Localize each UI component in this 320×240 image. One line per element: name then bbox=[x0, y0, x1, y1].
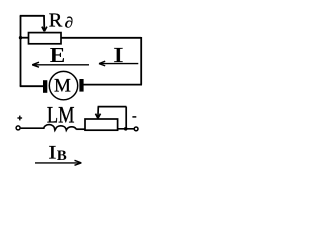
node B junction dot right bbox=[124, 127, 128, 131]
svg-text:I: I bbox=[48, 141, 56, 163]
svg-text:B: B bbox=[57, 148, 67, 164]
resistor field rheostat body bbox=[85, 119, 118, 130]
terminal circle + bbox=[16, 126, 20, 130]
motor M circle bbox=[49, 71, 77, 99]
inductor LM coil bbox=[44, 125, 77, 131]
wire: bypass drop to output bbox=[125, 107, 127, 129]
wire: Rd right to top-right corner bbox=[61, 37, 141, 39]
svg-text:LM: LM bbox=[47, 104, 75, 128]
wire: rheostat to minus terminal bbox=[118, 128, 134, 130]
arrow IB (field current) bbox=[35, 160, 81, 165]
svg-text:E: E bbox=[50, 43, 65, 67]
label + terminal bbox=[17, 116, 22, 121]
wire: slider stem up bbox=[97, 107, 99, 118]
wire: bypass horizontal over rheostat bbox=[98, 106, 127, 108]
label - terminal bbox=[132, 116, 136, 118]
wire: coil to field rheostat bbox=[76, 128, 85, 130]
arrow onto field rheostat (slider) bbox=[96, 114, 101, 119]
wire: top bypass horizontal over Rd bbox=[20, 15, 44, 17]
wire: motor right lead bbox=[83, 84, 142, 86]
svg-text:R: R bbox=[49, 10, 63, 32]
arrow E (emf direction) bbox=[32, 62, 89, 67]
node A junction dot left bbox=[19, 36, 22, 39]
wire: right rail of armature loop bbox=[140, 37, 142, 85]
wire: node joining left rail to Rd bbox=[21, 37, 29, 39]
wire: motor left lead bbox=[20, 85, 44, 87]
svg-text:∂: ∂ bbox=[65, 16, 74, 32]
arrow I (current direction) bbox=[99, 61, 138, 66]
wire: slider drop of Rd bypass bbox=[43, 15, 45, 31]
svg-text:M: M bbox=[54, 75, 71, 96]
arrow onto resistor Rd (slider) bbox=[42, 27, 47, 32]
terminal circle - bbox=[134, 127, 138, 131]
brush left of motor bbox=[43, 80, 47, 93]
wire: left rail of armature loop bbox=[20, 16, 22, 86]
wire: plus terminal to coil bbox=[21, 127, 45, 129]
brush right of motor bbox=[79, 79, 83, 92]
resistor Rd body bbox=[29, 33, 62, 44]
